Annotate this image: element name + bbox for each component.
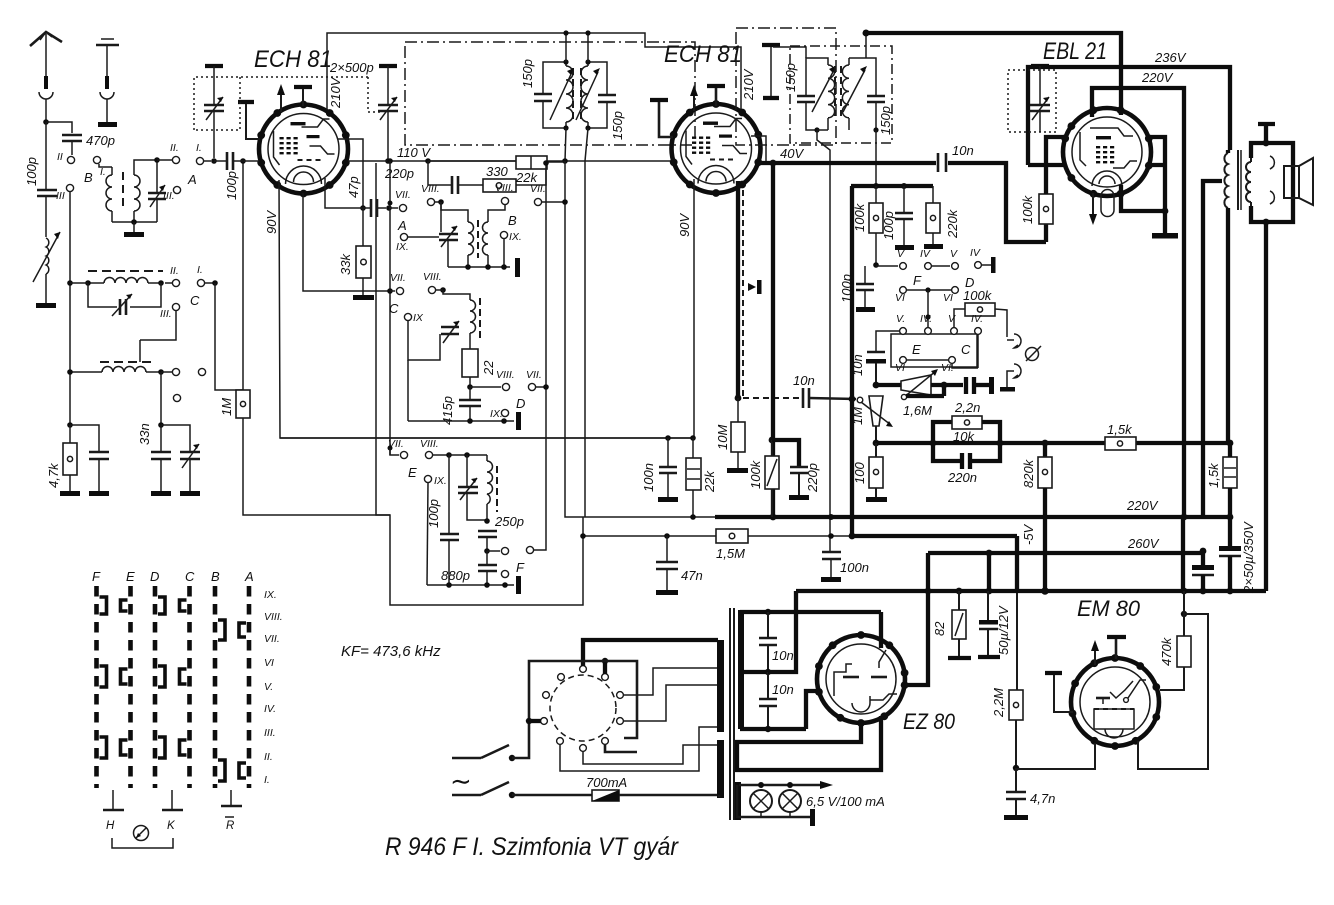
wire 1M bottom to switch box (243, 418, 583, 605)
svg-text:4,7n: 4,7n (1030, 791, 1055, 806)
ground bar 100p network (895, 245, 914, 250)
wire rail x215 down (215, 283, 243, 390)
ground bar 220k (924, 244, 943, 249)
svg-text:1M: 1M (219, 398, 234, 416)
wire rail x390 (387, 158, 393, 455)
terminal IX E (424, 475, 446, 585)
wire IF T1 secondary bottom rail x585 (585, 128, 588, 517)
ground bar ferrite coil (36, 303, 56, 308)
wire selector pin to box (605, 744, 637, 752)
svg-text:-5V: -5V (1021, 523, 1036, 545)
resistor 10k feedback (933, 416, 1000, 444)
svg-text:4,7k: 4,7k (46, 462, 61, 488)
svg-text:A: A (397, 218, 407, 233)
switch wafer column D (153, 586, 158, 788)
svg-text:10n: 10n (772, 648, 794, 663)
IF T2 capacitor 150p left (783, 63, 817, 130)
svg-text:IX.: IX. (509, 231, 522, 243)
resistor 33k (338, 208, 371, 295)
terminal III loop (140, 303, 180, 340)
ground bar 33k (353, 295, 374, 300)
node I loop to rail (205, 280, 218, 286)
svg-text:V: V (897, 248, 905, 260)
capacitor 100n detector (822, 552, 869, 577)
capacitor AVC left (70, 425, 109, 496)
svg-text:VII.: VII. (388, 438, 404, 450)
terminal IV row F (920, 248, 950, 269)
feedthrough cap bar top (762, 45, 780, 96)
svg-text:VIII.: VIII. (264, 611, 283, 623)
svg-text:10n: 10n (793, 373, 815, 388)
terminal IX B (500, 231, 521, 267)
svg-text:III.: III. (264, 727, 276, 739)
wire AVC rail top 1M (240, 158, 246, 390)
svg-text:VII.: VII. (264, 633, 280, 645)
capacitor 33n (137, 423, 171, 496)
resistor 4,7k (46, 425, 77, 491)
IF T1 secondary coil (576, 62, 600, 128)
svg-text:150p: 150p (783, 63, 798, 92)
svg-text:236V: 236V (1154, 50, 1187, 65)
svg-text:F: F (516, 560, 525, 575)
svg-text:330: 330 (486, 164, 508, 179)
wire IV stub x928 (925, 290, 930, 327)
svg-text:IV.: IV. (971, 313, 983, 325)
wire grid line y438 (280, 437, 694, 439)
coil B osc primary (441, 202, 474, 267)
ground bar 4,7k (60, 491, 80, 496)
oscillator coil L3 core dashes (100, 361, 152, 363)
wire V4 cathode to 260V (904, 553, 928, 685)
band coil B primary (106, 167, 112, 222)
svg-text:47p: 47p (346, 176, 361, 198)
feedthrough box 210V dashed (736, 28, 836, 145)
coil B osc core (477, 220, 479, 258)
IF T2 primary coil (812, 65, 836, 130)
svg-text:10M: 10M (715, 425, 730, 450)
resistor 100k AF (954, 288, 1007, 337)
svg-text:22: 22 (481, 360, 496, 376)
wire 10n to EBL21 grid (948, 163, 1046, 242)
svg-text:1,5k: 1,5k (1107, 422, 1133, 437)
svg-text:F: F (913, 273, 922, 288)
svg-text:I.: I. (197, 264, 203, 276)
terminal VIII B (495, 182, 517, 228)
svg-text:220p: 220p (384, 166, 414, 181)
resistor 220k (926, 186, 960, 244)
dashed AVC line x742 (743, 190, 799, 398)
svg-text:VI: VI (943, 292, 953, 304)
terminal IX C (404, 312, 424, 324)
node anode run (863, 30, 870, 37)
svg-text:A: A (187, 172, 197, 187)
anode bar top V2 (707, 86, 725, 106)
svg-text:VIII.: VIII. (420, 438, 439, 450)
potentiometer 100k volume (748, 437, 779, 517)
wire V2 upper right pin stub (751, 136, 766, 161)
svg-text:E: E (126, 569, 135, 584)
mains switch lower (452, 782, 515, 798)
padder capacitor loop (88, 283, 161, 316)
terminal IX A (396, 233, 439, 253)
svg-text:2,2M: 2,2M (991, 688, 1006, 718)
svg-text:220k: 220k (945, 208, 960, 239)
svg-text:VI: VI (264, 657, 274, 669)
wire selector left pin stub (526, 718, 541, 724)
svg-text:II.: II. (264, 751, 273, 763)
svg-text:210V: 210V (328, 76, 343, 109)
terminal V row D (950, 248, 958, 269)
switch box E C (891, 334, 977, 367)
wire osc right down (158, 372, 164, 428)
node antenna junction (43, 119, 49, 125)
ground bar 100 (866, 497, 887, 502)
switch contact B-A II/I (218, 760, 246, 781)
svg-text:I.: I. (264, 774, 270, 786)
svg-text:220V: 220V (1126, 498, 1159, 513)
IF T2 secondary tank loop (849, 58, 876, 96)
svg-text:D: D (150, 569, 159, 584)
svg-text:VII.: VII. (526, 369, 542, 381)
wire HT mid tap (740, 669, 771, 675)
terminal VIII D (470, 369, 515, 391)
node E coil bottom (484, 518, 490, 524)
terminal VI row F left (895, 287, 952, 304)
svg-text:2×500p: 2×500p (329, 60, 374, 75)
coil C (443, 290, 480, 349)
svg-text:260V: 260V (1127, 536, 1160, 551)
wire top frame y33 (327, 30, 741, 112)
wire AF tap row (876, 383, 901, 387)
capacitor 2x50u no1 (1219, 517, 1256, 594)
wire 220V bus thick (715, 498, 1231, 520)
svg-text:150p: 150p (878, 106, 893, 135)
svg-text:VI: VI (895, 292, 905, 304)
capacitor 2x50u no2 (1192, 548, 1214, 591)
svg-text:100p: 100p (24, 157, 39, 186)
ferrite rod coil L1 (33, 232, 60, 303)
IF T1 primary coil (550, 62, 574, 128)
svg-text:II: II (57, 151, 63, 163)
anode bar top V5 (1107, 637, 1126, 659)
arrow cap V5 (1091, 640, 1099, 665)
svg-text:100p: 100p (224, 171, 239, 200)
antenna symbol (30, 32, 62, 78)
svg-text:H: H (106, 820, 115, 832)
resistor 1M AVC (219, 390, 250, 418)
terminal II coil B (170, 142, 180, 164)
AVC arrow bar tap (748, 280, 762, 294)
svg-text:III: III (56, 190, 65, 202)
wire selector pin2 stub (602, 658, 608, 674)
capacitor 100p antenna (24, 157, 57, 196)
ground bar 220p (789, 495, 809, 500)
capacitor 10n HT1 (759, 612, 794, 672)
wire rail x546 (543, 160, 549, 548)
svg-text:6,5 V/100 mA: 6,5 V/100 mA (806, 794, 885, 809)
wire AF line x852 thick (849, 186, 856, 539)
arrow anode cap V1 (277, 84, 285, 112)
svg-text:47n: 47n (681, 568, 703, 583)
wire IF T2 primary top (773, 47, 806, 58)
svg-text:470p: 470p (86, 133, 115, 148)
wire IF T2 primary bottom detector (814, 127, 830, 553)
wire L3 tap via C (139, 340, 141, 362)
svg-text:82: 82 (932, 621, 947, 636)
switch matrix row labels (264, 589, 283, 786)
ground bar 82 (948, 656, 971, 660)
wire network top y186 (851, 183, 933, 189)
svg-text:40V: 40V (780, 146, 804, 161)
capacitor 50u/12V (979, 591, 1011, 655)
phone jack contact upper (1007, 334, 1021, 348)
terminal VIII C (423, 271, 446, 294)
svg-text:K: K (167, 820, 176, 832)
tuning gang bar V1 right (379, 66, 397, 104)
tube V2 ECH81 internal electrodes (681, 113, 752, 184)
switch unit outline box (376, 163, 390, 515)
svg-text:470k: 470k (1159, 636, 1174, 666)
dotted gang box right (1008, 70, 1056, 132)
wire -5V to 2,2M (852, 523, 1036, 690)
capacitor 10n HT2 (759, 672, 794, 729)
tube V3 internal electrodes (1072, 117, 1142, 187)
node osc gang junction (385, 158, 391, 164)
terminal VIII A (421, 183, 444, 206)
wire triode grid V1 down to VII-C (303, 193, 390, 291)
svg-text:E: E (408, 465, 417, 480)
capacitor 47n (656, 536, 703, 590)
terminal IV row C (971, 313, 983, 334)
capacitor 220p deemphasis (772, 440, 820, 495)
ground H under F-E (103, 790, 124, 832)
switch contact D-C VI/V (158, 666, 187, 687)
svg-text:22k: 22k (702, 470, 717, 493)
ground bar pilot circuit (810, 809, 815, 826)
svg-text:VII.: VII. (390, 272, 406, 284)
node grid line 22k (690, 435, 696, 441)
tube V1 ECH81 pins (257, 101, 349, 198)
ground bar 100n grid (658, 497, 678, 502)
svg-text:100k: 100k (1020, 194, 1035, 224)
node coil B top (154, 157, 172, 182)
svg-text:C: C (190, 293, 200, 308)
wire selector staircase 1 (623, 668, 718, 695)
pilot lamp 2 (779, 790, 801, 812)
svg-text:90V: 90V (677, 213, 692, 237)
resistor 100 (852, 443, 883, 497)
wire IV-C down (952, 334, 978, 368)
terminal IX F (501, 560, 525, 578)
svg-text:2,2n: 2,2n (954, 400, 980, 415)
svg-text:100n: 100n (641, 463, 656, 492)
wire 110V line V1 to V2 (348, 160, 672, 162)
svg-text:D: D (516, 396, 525, 411)
resistor 10M (715, 398, 745, 468)
node loop coil left (85, 280, 91, 286)
svg-text:1,5M: 1,5M (716, 546, 745, 561)
wire coil B bottom bus (112, 219, 157, 232)
variable capacitor tuning aerial (204, 97, 224, 158)
wire 220V line (1092, 88, 1184, 517)
wire IF T2 anode feed (863, 30, 870, 58)
capacitor 100p series grid (214, 152, 259, 200)
terminal VII D (516, 369, 549, 411)
switch contact B-A VIII/VII (218, 620, 246, 640)
coil E (487, 461, 497, 521)
wire V5 target loop (1138, 614, 1208, 769)
resistor 1,5k (1105, 422, 1136, 450)
capacitor 100n grid (641, 438, 677, 497)
svg-text:100k: 100k (852, 202, 867, 232)
svg-text:1M: 1M (850, 407, 865, 425)
speaker magnet (1284, 166, 1299, 198)
svg-text:250p: 250p (494, 514, 524, 529)
switch wafer column C (187, 586, 192, 788)
wire selector staircase 4 (583, 745, 718, 764)
wire selector staircase 2 (623, 685, 718, 721)
heater bar speaker (1258, 124, 1275, 143)
coil B core dashes (122, 172, 124, 206)
resistor 22k grid leak (686, 438, 717, 520)
IF T1 capacitor 150p right (588, 62, 625, 140)
wire group F bottom (427, 582, 514, 588)
coil B osc secondary (483, 205, 506, 267)
transformer HT winding bar (738, 610, 744, 729)
variable capacitor coil B (148, 182, 166, 222)
svg-text:E: E (912, 342, 921, 357)
terminal V row E (896, 313, 906, 334)
svg-text:880p: 880p (441, 568, 470, 583)
tuning gang bar left (205, 66, 223, 105)
svg-text:IX.: IX. (434, 475, 447, 487)
terminal III osc unconnected (173, 394, 180, 401)
svg-text:IV: IV (920, 248, 931, 260)
svg-text:100p: 100p (881, 211, 896, 240)
cathode arrow V3 (1089, 193, 1097, 225)
terminal VII.A (389, 189, 411, 233)
capacitor 4,7n (1006, 768, 1055, 815)
svg-text:EM 80: EM 80 (1077, 596, 1141, 621)
svg-text:EZ 80: EZ 80 (903, 709, 956, 734)
svg-text:100p: 100p (839, 274, 854, 303)
tube V1 ECH81 internal electrodes (268, 114, 339, 185)
transformer core (730, 608, 734, 820)
ground bar coil B right (515, 258, 520, 277)
resistor 22 (462, 349, 496, 390)
wire antenna to 470p (46, 122, 72, 133)
voltage selector pins (541, 666, 624, 752)
wire group D bottom (408, 360, 514, 424)
capacitor 880p (441, 551, 497, 585)
potentiometer 1M volume (850, 396, 893, 443)
band coil B secondary (134, 160, 155, 222)
svg-text:VIII.: VIII. (495, 182, 514, 194)
speaker cone (1299, 158, 1313, 205)
wire triode anode V1 (338, 139, 363, 207)
svg-text:C: C (389, 301, 399, 316)
fuse 700mA (512, 775, 719, 801)
IF T2 core dashes (835, 66, 841, 116)
tube V4 EZ80 pins (815, 631, 908, 727)
output transformer core (1238, 150, 1241, 210)
oscillator coil B variable cap (439, 202, 458, 267)
svg-text:C: C (961, 342, 971, 357)
capacitor 220p series (384, 161, 483, 194)
resistor 2,2M (991, 688, 1023, 771)
svg-text:820k: 820k (1021, 458, 1036, 488)
svg-text:I.: I. (196, 142, 202, 154)
svg-text:220n: 220n (947, 470, 977, 485)
capacitor 47p (346, 176, 386, 217)
svg-text:VIII.: VIII. (496, 369, 515, 381)
speaker clamp upper (1270, 156, 1274, 169)
terminal VII B (530, 183, 568, 206)
heater bar V5 left (1045, 673, 1073, 712)
terminal III coil B (163, 186, 181, 202)
wire HT bottom tap (740, 691, 820, 732)
svg-text:VI: VI (895, 362, 905, 374)
svg-text:B: B (508, 213, 517, 228)
terminal I coil B (93, 156, 100, 163)
node 110V to 220p (425, 158, 431, 164)
tube V5 EM80 pins (1069, 654, 1161, 750)
tube V2 ECH81 pins (670, 100, 762, 197)
ground bar phone jack (1000, 387, 1015, 392)
IF T2 capacitor 150p right (867, 96, 893, 135)
ground bar 47n (656, 590, 678, 595)
svg-text:KF= 473,6 kHz: KF= 473,6 kHz (341, 643, 441, 660)
tube V2 ECH81 envelope (672, 104, 761, 193)
svg-text:B: B (211, 569, 220, 584)
ground plug contact (100, 76, 114, 122)
wire pilot lamps top (739, 781, 833, 789)
terminal V row C (948, 313, 957, 334)
node IF T1 coil tops (563, 59, 590, 130)
svg-text:I.: I. (100, 166, 106, 178)
switch contact F-E IX/VIII (100, 597, 128, 614)
svg-text:III.: III. (160, 308, 172, 320)
svg-text:V: V (948, 313, 956, 325)
svg-text:V: V (950, 248, 958, 260)
wire selector box medium (512, 661, 637, 758)
IF T2 primary tank loop (806, 58, 828, 96)
svg-text:100k: 100k (963, 288, 993, 303)
svg-text:10k: 10k (953, 429, 975, 444)
svg-text:ECH 81: ECH 81 (254, 46, 332, 73)
terminal I osc (161, 368, 206, 375)
svg-text:II.: II. (170, 265, 179, 277)
wire HT top tap (740, 609, 881, 648)
svg-text:IX: IX (413, 312, 424, 324)
wire -5V line left (580, 533, 716, 539)
svg-text:EBL 21: EBL 21 (1043, 38, 1107, 65)
node grid line 100n (665, 435, 671, 441)
node tuning cap to terminal I (211, 158, 217, 164)
svg-text:VIII.: VIII. (423, 271, 442, 283)
wire heptode grid V1 down (279, 180, 694, 438)
capacitor 10n tone (850, 331, 900, 385)
heater bar top-left V1 (238, 102, 260, 139)
band switch matrix column labels (92, 569, 254, 584)
switch contact D-C IX/VIII (158, 597, 187, 614)
terminal VII E (388, 438, 418, 480)
terminal VI row F right (943, 287, 958, 304)
svg-text:VII.: VII. (530, 183, 546, 195)
wire 220V feed to transformer (1203, 181, 1222, 517)
svg-text:100: 100 (852, 462, 867, 484)
terminal I top (196, 142, 211, 165)
